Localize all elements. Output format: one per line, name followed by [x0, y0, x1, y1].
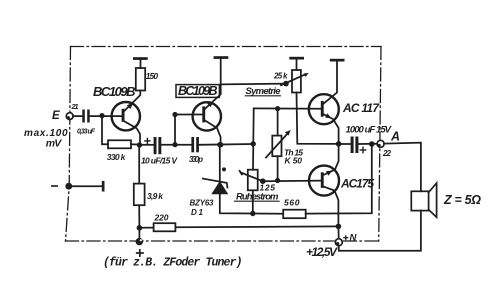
wire: 330k to emitter node: [131, 143, 140, 145]
resistor 220: [154, 223, 176, 231]
node: 220 feedback junction: [336, 224, 342, 230]
svg-text:220: 220: [154, 213, 169, 223]
label Ruhestrom (underlined): [235, 191, 280, 202]
svg-text:150: 150: [146, 71, 159, 81]
node: Ruhestrom bottom junction: [250, 211, 255, 216]
wire: 10uF to 330p: [161, 144, 191, 146]
transistor Q2 BC109B: [193, 59, 221, 145]
node: wiper to base wire: [260, 178, 266, 184]
wire: emitter node to 10uF: [140, 144, 154, 146]
potentiometer 25k Symetrie: [281, 70, 309, 93]
input terminal E (pin 21): [66, 113, 73, 120]
wire: 25k bottom to output node: [297, 93, 339, 144]
svg-text:+12,5V: +12,5V: [306, 245, 338, 259]
svg-text:K 50: K 50: [285, 156, 303, 166]
supply stub above 150: [133, 57, 148, 68]
wire: E terminal to C1: [73, 115, 82, 117]
transistor Q3 AC117: [309, 62, 339, 144]
wire: AC175 emitter down to +N terminal: [337, 226, 339, 238]
wire: 220 to ground junction: [139, 227, 153, 229]
supply stub above AC117: [330, 59, 345, 62]
svg-text:Symetrie: Symetrie: [246, 86, 282, 97]
svg-text:3,9 k: 3,9 k: [147, 191, 164, 201]
resistor 150: [136, 68, 145, 91]
wire: C1 to Q1 base: [90, 115, 122, 117]
wire: bootstrap down and left to 560: [306, 144, 372, 214]
node: Q2 base junction: [172, 142, 177, 147]
svg-text:22: 22: [382, 149, 392, 158]
wire: 560 to Ruhestrom bottom: [253, 213, 283, 215]
svg-text:AC175: AC175: [340, 177, 374, 191]
dash-dot enclosure border: [66, 47, 382, 242]
capacitor 1000uF 15V with +: [339, 137, 377, 154]
potentiometer 125 Ruhestrom: [240, 170, 263, 214]
supply stub above 25k: [289, 57, 304, 70]
node: base Q1 / 330k junction: [99, 113, 104, 118]
svg-text:Z = 5Ω: Z = 5Ω: [443, 193, 481, 207]
node: signal rail to branch: [251, 141, 256, 146]
node: 3,9k bottom junction: [137, 225, 143, 231]
node: Th15 top junction: [275, 106, 280, 111]
thermistor Th 15 K 50: [266, 109, 291, 181]
svg-text:330 k: 330 k: [107, 152, 127, 162]
svg-text:BZY63: BZY63: [190, 198, 215, 207]
wire: junction down to 330k: [102, 116, 108, 145]
input ground terminal (minus): [52, 181, 105, 192]
wire: +N terminal to bottom rail and right: [339, 211, 421, 251]
node: Q2 emitter on signal rail: [218, 142, 223, 147]
svg-text:1000 uF 15V: 1000 uF 15V: [346, 125, 392, 136]
svg-text:330 p: 330 p: [189, 155, 203, 164]
capacitor C 0,33uF: [82, 110, 89, 123]
svg-text:D 1: D 1: [191, 208, 204, 217]
svg-text:mV: mV: [46, 138, 63, 150]
svg-text:E: E: [52, 110, 60, 122]
svg-text:A: A: [390, 130, 400, 144]
resistor 330k: [108, 140, 131, 148]
label Symetrie (underlined): [245, 86, 281, 97]
node: Th15 bottom junction: [275, 178, 280, 183]
speaker Z=5 Ohm: [411, 183, 436, 217]
supply stub above Q2: [214, 56, 229, 59]
svg-text:21: 21: [71, 102, 79, 111]
wire: junction up to Q2 base: [175, 115, 204, 145]
svg-text:25 k: 25 k: [273, 72, 288, 81]
node: zener top on signal rail: [217, 142, 222, 147]
output terminal A (pin 22): [377, 140, 384, 147]
transistor Q4 AC175: [309, 144, 339, 226]
wire: A to speaker: [384, 143, 421, 192]
svg-text:AC 117: AC 117: [342, 101, 380, 115]
capacitor 330p: [191, 137, 199, 152]
wire: 220 feedback line: [175, 225, 338, 228]
node: Q1 emitter junction: [137, 142, 142, 147]
resistor 3,9k: [134, 145, 145, 228]
label +N: [344, 233, 358, 244]
ground terminal on bottom border: [136, 228, 143, 256]
wire: Symetrie wire Q2 collector to 25k wiper: [221, 83, 286, 86]
terminal +N: [335, 239, 342, 246]
wire: lower base rail to AC175: [263, 180, 322, 183]
svg-text:BC109B: BC109B: [178, 84, 218, 98]
resistor 560: [283, 210, 306, 219]
node: wiper junction: [283, 81, 289, 87]
svg-text:N: N: [350, 233, 358, 244]
svg-text:0,33 uF: 0,33 uF: [77, 129, 96, 136]
node: base wire corner dot: [172, 112, 177, 117]
wire: vertical branch to Ruhestrom: [252, 108, 255, 169]
node: bootstrap junction: [369, 141, 375, 147]
svg-text:560: 560: [284, 198, 300, 208]
label box BC109B (Q2): [176, 84, 219, 98]
svg-text:BC109B: BC109B: [93, 84, 136, 99]
capacitor 10uF/15V with +: [154, 137, 162, 154]
zener diode BZY63 D1: [203, 144, 253, 213]
svg-text:10 uF/15 V: 10 uF/15 V: [141, 156, 178, 166]
wire: driver rail corner to AC117 base: [254, 107, 322, 109]
node: output node: [336, 141, 342, 147]
svg-text:(für z.B. ZFoder Tuner): (für z.B. ZFoder Tuner): [103, 257, 243, 270]
transistor Q1 BC109B: [112, 91, 141, 144]
wire: 330p to Ruhestrom branch: [199, 143, 253, 146]
